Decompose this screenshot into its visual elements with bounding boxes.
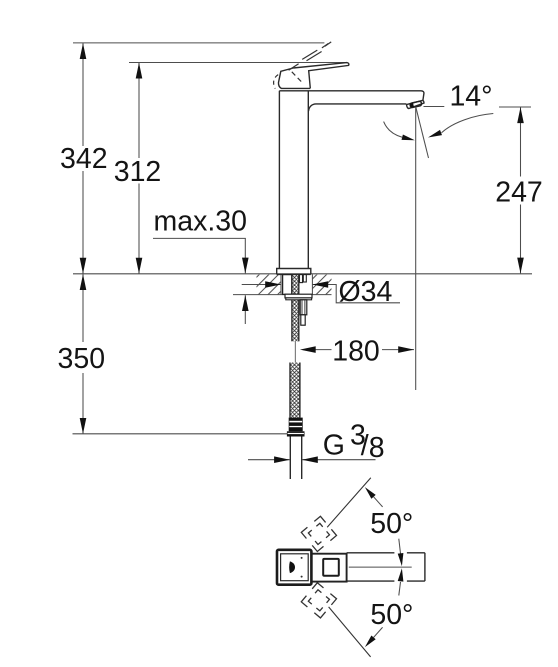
handle dashed arc — [274, 75, 279, 89]
dimension 350 line — [82, 274, 84, 342]
handle lever blade — [293, 63, 349, 89]
dimension 180 — [303, 349, 332, 351]
handle base — [278, 68, 310, 88]
svg-text:max.30: max.30 — [154, 206, 247, 238]
svg-text:312: 312 — [114, 156, 162, 188]
hose braided lower — [290, 363, 300, 418]
faucet body right edge — [307, 91, 309, 269]
14 deg slant line — [416, 107, 429, 158]
50 deg upper ray arrow — [365, 487, 376, 499]
dimension G3/8 — [248, 459, 290, 461]
counter hatch right — [312, 275, 331, 295]
base plate — [277, 269, 311, 275]
connection pipe — [289, 437, 291, 480]
extension line top 342 — [73, 42, 324, 44]
14 deg left curved arrow — [384, 122, 403, 138]
shank strip 1 — [300, 275, 303, 283]
mounting stud lower — [301, 315, 305, 325]
counter hatch left — [257, 275, 282, 295]
top view body block — [309, 554, 347, 582]
faucet body left edge — [278, 91, 280, 269]
extension line top 312 — [129, 62, 346, 64]
svg-text:14°: 14° — [449, 81, 492, 113]
hose nut — [289, 418, 303, 432]
faucet top edge and spout end — [279, 91, 424, 101]
bottom reference line — [73, 433, 289, 435]
counter bottom line — [233, 294, 332, 296]
hose braided upper — [292, 275, 299, 342]
dimension 247 line — [520, 107, 522, 176]
aerator leader line — [424, 106, 445, 108]
top view handle knob — [277, 550, 311, 585]
dimension 312 line — [138, 63, 140, 158]
svg-text:50°: 50° — [370, 599, 413, 631]
50 deg lower ray arrow — [374, 627, 383, 637]
svg-text:350: 350 — [58, 343, 106, 375]
svg-text:247: 247 — [495, 177, 543, 209]
50 deg lower arc from centerline — [399, 582, 401, 596]
svg-text:180: 180 — [332, 336, 380, 368]
svg-text:342: 342 — [60, 143, 108, 175]
aerator — [407, 100, 425, 108]
svg-text:8: 8 — [369, 432, 385, 464]
counter top line — [73, 273, 532, 275]
dashed diamond lower — [301, 583, 336, 618]
14 deg right curved arrow — [442, 114, 494, 133]
dashed diamond upper outer — [301, 516, 336, 551]
svg-text:/: / — [361, 430, 369, 462]
top view centerline — [349, 566, 412, 568]
svg-text:G: G — [323, 430, 345, 462]
max.30 upper arrow — [244, 238, 246, 273]
hose centerline gap — [294, 341, 296, 362]
svg-text:Ø34: Ø34 — [339, 276, 393, 308]
counter hole edge left — [280, 274, 282, 294]
handle dashed inner — [292, 72, 303, 83]
mounting stud — [300, 300, 307, 315]
top view lever mark — [289, 561, 295, 573]
spout underside — [309, 104, 407, 111]
50 deg upper arc to centerline — [399, 539, 401, 554]
counter hole edge right — [311, 274, 313, 294]
14 deg vertical line — [415, 107, 417, 390]
handle raised dashes — [289, 42, 332, 70]
max.30 leader underline — [153, 237, 246, 239]
dimension O34 — [242, 284, 281, 286]
50 deg lower ray — [329, 607, 371, 657]
max.30 lower arrow — [244, 295, 246, 324]
svg-text:50°: 50° — [370, 508, 413, 540]
mounting shank box — [283, 275, 292, 295]
dimension 342 line — [82, 43, 84, 146]
50 deg upper ray — [327, 478, 371, 527]
shank strip 2 — [303, 275, 306, 282]
top view spout — [347, 553, 425, 581]
mounting nut — [285, 294, 312, 298]
top view cartridge square — [323, 559, 339, 576]
dimension 247 tick — [499, 106, 531, 108]
